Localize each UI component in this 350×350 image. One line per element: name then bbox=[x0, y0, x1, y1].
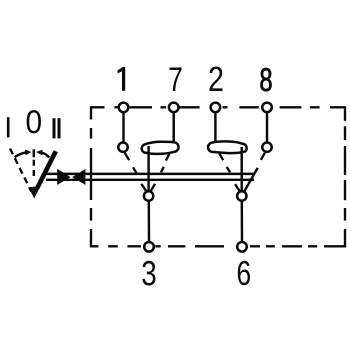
position 0 dashed lever line bbox=[33, 160, 35, 176]
travel arc left arrow bbox=[15, 152, 27, 157]
label I position bbox=[7, 117, 10, 137]
wire contact 6 to terminal 6 bbox=[241, 201, 244, 242]
terminal 7 bbox=[169, 103, 179, 113]
label 8 bbox=[260, 68, 271, 91]
position 0 tick bbox=[33, 149, 35, 157]
contact bridge pole 2 bbox=[208, 141, 247, 153]
terminal 6 bbox=[237, 242, 247, 252]
contact bridge pole 1 bbox=[142, 142, 179, 154]
linkage dashes pole 2 left bbox=[219, 153, 240, 191]
pole 1 moving contact rod bbox=[147, 146, 149, 191]
wire contact 3 to terminal 3 bbox=[148, 201, 151, 242]
wire stub terminal 2 bbox=[214, 112, 216, 142]
linkage dash pole 2 right upper bbox=[261, 153, 265, 160]
label 7 bbox=[170, 68, 182, 91]
detent latch bowtie right triangle bbox=[72, 169, 85, 185]
switch housing dashed box: bottom edge bbox=[91, 245, 345, 247]
lever arrowhead bbox=[29, 186, 41, 199]
label 0 position bbox=[27, 110, 41, 133]
actuator push rod double line bbox=[46, 173, 254, 175]
wire stub terminal 1 bbox=[122, 112, 124, 143]
linkage dashes pole 1 right bbox=[151, 154, 170, 191]
moving blade pole 2 to contact 8 bbox=[244, 168, 258, 192]
terminal 2 bbox=[211, 103, 221, 113]
fixed contact of terminal 1 bbox=[118, 143, 127, 152]
moving contact node pole 2 bbox=[237, 191, 246, 200]
switch housing dashed box: left edge bbox=[90, 106, 92, 247]
moving contact node pole 1 bbox=[144, 191, 153, 200]
position I dashed lever line bbox=[10, 149, 31, 192]
label 6 bbox=[238, 261, 250, 285]
wire stub terminal 7 bbox=[172, 112, 174, 143]
terminal 3 bbox=[144, 242, 154, 252]
label 1 bbox=[118, 67, 126, 91]
switch housing dashed box: right edge bbox=[344, 106, 346, 247]
label 2 bbox=[209, 66, 222, 91]
lever bbox=[37, 151, 56, 188]
label 3 bbox=[142, 261, 155, 286]
terminal 1 bbox=[119, 103, 129, 113]
linkage dashes pole 1 left bbox=[125, 153, 147, 192]
wire stub terminal 8 bbox=[266, 112, 268, 143]
detent latch bowtie left triangle bbox=[57, 169, 70, 185]
pole 2 moving contact rod bbox=[240, 147, 242, 191]
label II position bbox=[53, 118, 56, 138]
terminal 8 bbox=[262, 103, 272, 113]
fixed contact of terminal 8 bbox=[262, 143, 271, 152]
switch housing dashed box: top edge bbox=[91, 106, 345, 108]
travel arc right arrow bbox=[40, 152, 49, 157]
